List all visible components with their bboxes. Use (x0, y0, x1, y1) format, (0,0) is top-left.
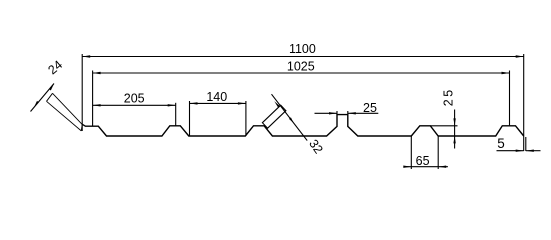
32 diagonal arrows: bases at plank edges, tips outward (274, 101, 280, 107)
dim line 5 right segment (526, 150, 541, 152)
dim line 140 y=103.4 (190, 102, 246, 104)
dim line 205 y=105.3 (93, 104, 176, 106)
dim line 65 y=166.7 (405, 166, 448, 168)
140 (190, 102, 198, 104)
extension line 1100 right / edge x=523.7 (523, 54, 525, 151)
extension rib3 right x=347.8 (347, 111, 349, 115)
extension rib3 left x=337 (336, 111, 338, 115)
dim line 5 left segment (497, 150, 524, 152)
205 (93, 104, 101, 106)
svg-text:140: 140 (206, 90, 227, 104)
svg-text:5: 5 (442, 90, 456, 97)
1100 left/right (82, 55, 90, 57)
middle lap plank parallelogram (262, 105, 286, 128)
65 inward-pointing (403, 166, 411, 168)
svg-text:1025: 1025 (287, 60, 315, 74)
5 (516, 150, 524, 152)
svg-text:5: 5 (497, 136, 505, 151)
svg-text:2: 2 (442, 99, 456, 106)
left lap edge line B (53, 93, 83, 124)
svg-text:65: 65 (416, 154, 430, 168)
extension line 65 left x=411.3 (410, 136, 412, 169)
25 vertical (453, 118, 455, 125)
extension line 65 right x=438.2 (437, 136, 439, 169)
extension line 140 right x=245.9 (245, 101, 247, 136)
25 top inward-pointing (329, 112, 337, 114)
profile outline of roof sheet (82, 115, 523, 136)
extension line 5 right x=525.8 (525, 137, 527, 151)
arrowheads (34, 55, 534, 168)
dim line 24 (diagonal) (31, 84, 55, 112)
svg-text:205: 205 (124, 91, 145, 105)
svg-text:25: 25 (363, 101, 377, 115)
svg-text:32: 32 (306, 137, 325, 156)
extension line 205 right x=175.7 (175, 103, 177, 126)
left lap edge line C (47, 101, 82, 131)
extension line 1100 left x=82.2 (81, 54, 83, 131)
dim line 25 vertical (454, 110, 456, 149)
dim line 1100 y=56.5 (82, 56, 524, 58)
svg-text:1100: 1100 (289, 42, 316, 56)
1025 left/right (93, 72, 101, 74)
left lap upper end cut (47, 93, 53, 101)
extension line 1025/205 left x=92.6 (92, 71, 94, 127)
extension line 140 left x=189.5 (189, 101, 191, 136)
24 diagonal arrows: bases at lines, tips outward (34, 101, 39, 108)
dim line 1025 y=73 (93, 72, 510, 74)
dimension texts (45, 42, 504, 168)
left lap tip end cut (81, 124, 82, 131)
dim line 25 top right segment (348, 112, 379, 114)
extension horiz rib top for 25v (430, 125, 457, 127)
dim line 25 top left segment (315, 112, 338, 114)
extension line 1025 right x=509.5 (509, 71, 511, 126)
svg-text:24: 24 (45, 58, 65, 78)
dim line 32 (diagonal) (272, 94, 308, 140)
